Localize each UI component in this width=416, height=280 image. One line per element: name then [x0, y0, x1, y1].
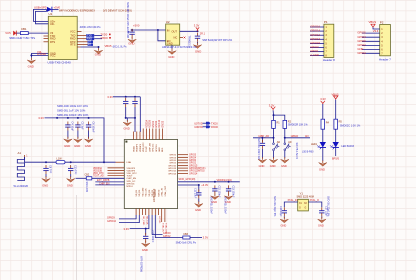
LED1 [320, 142, 326, 148]
junction rail drop [103, 161, 105, 163]
wire balun left [76, 177, 87, 179]
wire CHIP_EN [95, 184, 124, 186]
MCU U3 body [124, 140, 177, 209]
svg-text:GND: GND [64, 144, 70, 148]
svg-text:GND: GND [195, 49, 201, 53]
svg-text:XPD_DC: XPD_DC [153, 143, 155, 152]
svg-text:GND: GND [195, 208, 201, 212]
wire R2 down [284, 128, 286, 137]
wire C8 down [134, 107, 136, 118]
wire GPIO9 left [119, 215, 136, 219]
U3 left pin names inside [127, 161, 138, 188]
svg-text:U2: U2 [166, 20, 170, 24]
svg-text:3.3V: 3.3V [124, 227, 130, 231]
svg-text:GND: GND [259, 164, 265, 168]
wire URXD port [203, 126, 206, 128]
connector P1 [324, 24, 334, 57]
port arrow TXD0 [206, 122, 210, 125]
wire split [272, 110, 274, 120]
U1 right pin names [70, 30, 76, 47]
capacitor C1 polarized [129, 29, 134, 38]
ground GND15 [224, 194, 232, 200]
ground GND20 [280, 217, 288, 223]
svg-text:3.3V: 3.3V [320, 97, 326, 101]
svg-text:3.3V: 3.3V [38, 116, 44, 120]
svg-text:GPIO2: GPIO2 [169, 163, 176, 165]
wire 3.3V rail [45, 118, 105, 162]
svg-text:WIFI NODEMCU ESP8266EX: WIFI NODEMCU ESP8266EX [59, 9, 95, 13]
svg-text:RXD0: RXD0 [101, 36, 109, 40]
svg-text:LED1: LED1 [311, 143, 318, 146]
power flag VBUS [371, 24, 375, 27]
wire C17 gnd [321, 216, 323, 217]
svg-text:NC: NC [174, 36, 178, 40]
ground GND10 [142, 241, 150, 247]
svg-text:GND: GND [168, 55, 174, 59]
regulator U2 [166, 24, 180, 45]
svg-text:GPIO4: GPIO4 [189, 157, 197, 159]
svg-text:GPIO12: GPIO12 [310, 33, 320, 37]
junction [197, 30, 199, 32]
svg-text:SDIO_GPIO(MI): SDIO_GPIO(MI) [179, 179, 196, 181]
capacitor C9 [43, 165, 48, 174]
wire U1 pin to GND2 [81, 47, 99, 48]
power flag LED2 [334, 96, 338, 100]
svg-text:GPIO14: GPIO14 [189, 173, 198, 175]
svg-text:SD_CMD: SD_CMD [142, 216, 144, 226]
U3 top pin names inside [132, 142, 164, 152]
ground GND8 [84, 137, 92, 143]
svg-text:SD_D2: SD_D2 [136, 189, 138, 197]
svg-text:GPIO4: GPIO4 [169, 157, 176, 159]
junction [131, 29, 133, 31]
wire U1 pin UD+ to left [34, 9, 49, 21]
svg-text:GPIO5: GPIO5 [189, 155, 197, 157]
wire XTAL_OUT [308, 202, 321, 207]
P1 net labels [310, 25, 320, 57]
svg-text:L50 B-R60: L50 B-R60 [302, 150, 314, 153]
U1 right pin stubs [77, 32, 87, 45]
wire C5 to gnd [77, 131, 79, 138]
resistor R3 inline [183, 236, 190, 239]
svg-text:BP5/S: BP5/S [332, 157, 339, 160]
svg-text:C10 TPF: C10 TPF [73, 165, 76, 175]
wire LED1 top [322, 104, 324, 119]
RF pin stub [116, 161, 125, 163]
svg-text:TOUT: TOUT [146, 146, 148, 152]
wire output rail [180, 30, 198, 32]
svg-text:3.3V: 3.3V [269, 103, 275, 107]
svg-text:GND: GND [270, 164, 276, 168]
svg-text:U1: U1 [49, 12, 53, 16]
svg-text:GPIO3: GPIO3 [310, 45, 319, 49]
svg-text:SMD-5x6 CRL Ps: SMD-5x6 CRL Ps [176, 241, 197, 245]
junction [134, 96, 136, 98]
svg-text:SMD-03L 100nF: SMD-03L 100nF [223, 197, 226, 215]
wire C14 gnd [261, 149, 263, 158]
wire R5 to LED2 [335, 129, 337, 142]
svg-text:GND: GND [28, 64, 34, 68]
ground GND16 [258, 157, 266, 163]
wire EXT_RSTB [95, 181, 124, 183]
svg-text:XTAL_IN: XTAL_IN [161, 223, 164, 232]
ground GND2 [94, 48, 102, 54]
LED2 [333, 142, 339, 148]
junction [88, 117, 90, 119]
power flag LED1 [321, 101, 325, 105]
junction [77, 117, 79, 119]
crystal Y1 [298, 199, 309, 211]
svg-text:L1W: L1W [57, 157, 63, 160]
svg-text:GPIO0: GPIO0 [169, 160, 176, 162]
svg-text:SMD-0R5: SMD-0R5 [85, 182, 88, 193]
svg-text:AMS1117-3.3 SOT223-3.3V: AMS1117-3.3 SOT223-3.3V [162, 45, 197, 49]
svg-text:GPIO16: GPIO16 [156, 144, 158, 152]
svg-text:C16 22pF: C16 22pF [279, 206, 282, 217]
capacitor C4 [65, 122, 70, 131]
capacitor C13 [226, 185, 231, 194]
svg-text:3.3V: 3.3V [203, 236, 209, 240]
U3 top pin net labels vertical [145, 119, 164, 128]
capacitor C8 [132, 98, 137, 107]
svg-text:GND: GND [85, 144, 91, 148]
ground GND21 [318, 217, 326, 223]
U3 bottom pin stubs [136, 209, 165, 223]
U3 top pin stubs [134, 129, 163, 140]
svg-text:LED B-R03: LED B-R03 [341, 145, 354, 148]
svg-text:RTS: RTS [50, 40, 55, 44]
svg-text:RXD: RXD [87, 38, 92, 41]
U1 left pin names [50, 19, 56, 57]
svg-text:SMD-CHR T-BC TPs: SMD-CHR T-BC TPs [9, 36, 36, 40]
IC U1 USB-UART [48, 16, 77, 59]
svg-text:OUT: OUT [172, 29, 178, 33]
U1 pin stub [77, 46, 80, 48]
svg-text:AD: AD [288, 141, 292, 144]
svg-text:VDD33(2/3/4): VDD33(2/3/4) [217, 179, 232, 182]
net flag VBUS left [13, 31, 16, 36]
U1 left pin stubs [44, 36, 49, 42]
svg-text:GND: GND [357, 47, 363, 51]
svg-text:VDDA: VDDA [132, 146, 135, 152]
wire GPIO10 left [119, 215, 139, 223]
svg-text:W-H 2R4GB: W-H 2R4GB [14, 184, 29, 188]
junction [70, 161, 72, 163]
svg-text:XTAL_O: XTAL_O [310, 199, 319, 202]
U3 left pin stubs [108, 168, 125, 176]
junction [228, 181, 230, 183]
wire R1 down [273, 128, 275, 137]
svg-text:GND: GND [95, 53, 101, 57]
wire key1 net [253, 137, 274, 139]
U3 bottom pin net labels vertical [142, 216, 167, 235]
svg-text:SMD-03L 22pF 5%: SMD-03L 22pF 5% [327, 196, 330, 217]
svg-text:C6 100nF: C6 100nF [91, 122, 94, 133]
wire to R2 [274, 115, 285, 120]
wire RF line 2 [65, 161, 116, 163]
svg-text:SMD 3225 40M: SMD 3225 40M [297, 196, 314, 199]
svg-text:GND: GND [318, 224, 324, 228]
port mark TXD0 [109, 34, 111, 36]
wire RXD0 [94, 38, 102, 40]
svg-text:VCC: VCC [70, 30, 76, 34]
resistor R2 [283, 120, 287, 128]
ground GND6 [64, 137, 72, 143]
svg-text:GPIO12: GPIO12 [168, 171, 177, 173]
wire VBUS to P2 [373, 27, 380, 29]
wire VBUS to R [16, 32, 20, 34]
wire U1 VCC pin [31, 55, 48, 57]
wire C4 to gnd [67, 131, 69, 138]
svg-text:GND: GND [74, 144, 80, 148]
wire R to U1 [28, 32, 48, 34]
junction [134, 117, 136, 119]
svg-text:XTAL_IN: XTAL_IN [161, 188, 164, 197]
capacitor C11 [198, 185, 200, 192]
svg-text:RTS: RTS [70, 43, 75, 47]
svg-text:A1: A1 [18, 151, 22, 155]
P2 pin numbers [381, 28, 383, 56]
capacitor C14 [261, 138, 263, 142]
capacitor C7 [123, 98, 128, 107]
svg-text:GND: GND [159, 147, 161, 152]
svg-text:GPIO5: GPIO5 [357, 31, 366, 35]
capacitor C16 [282, 207, 287, 216]
connector P2 [380, 25, 391, 56]
svg-text:SD_D0: SD_D0 [149, 189, 151, 197]
Y1 pin names [299, 203, 308, 210]
ground GND12 [67, 176, 75, 182]
svg-text:U0TXD: U0TXD [158, 216, 160, 224]
wire chip top rail [113, 96, 140, 98]
wire LED2 top [335, 100, 337, 120]
svg-text:C15 100nF: C15 100nF [151, 231, 154, 243]
port mark RXD0 [109, 37, 111, 39]
capacitor C12 [212, 185, 217, 194]
P2 net labels [357, 31, 366, 55]
svg-text:+5V0: +5V0 [133, 24, 140, 28]
wire VDD rail right [178, 181, 240, 183]
svg-text:P2: P2 [380, 20, 384, 24]
wire rail to pin1 [134, 118, 136, 132]
svg-text:GPIO2: GPIO2 [189, 163, 197, 165]
svg-text:TXD0: TXD0 [100, 32, 107, 36]
capacitor C10 [68, 165, 73, 174]
junction [273, 114, 275, 116]
svg-text:GPIO14: GPIO14 [168, 173, 177, 175]
capacitor C17 [319, 207, 324, 216]
svg-text:WIFI-ESP8266: WIFI-ESP8266 [140, 256, 143, 273]
svg-text:IN: IN [167, 29, 170, 33]
port box TXD [86, 34, 94, 37]
U3 left pin net labels [93, 167, 104, 178]
svg-text:GPIO2: GPIO2 [357, 43, 366, 47]
svg-text:3.3V: 3.3V [107, 95, 113, 99]
junction [273, 137, 275, 139]
ground GND19 [319, 160, 327, 166]
svg-text:SMD-04D 10CE 10V 10%: SMD-04D 10CE 10V 10% [57, 104, 89, 108]
wire LED1 gnd [322, 148, 324, 162]
capacitor C5 [75, 122, 80, 131]
port box RTS [88, 43, 93, 46]
svg-text:GND: GND [142, 248, 148, 252]
U3 right pin stubs [178, 155, 188, 174]
ground GND13 [195, 201, 203, 207]
resistor R5 [334, 119, 338, 129]
wire 3.3V short [178, 184, 199, 186]
resistor CB1 [20, 32, 28, 35]
diode D1 [47, 7, 52, 12]
svg-text:XTAL_IN: XTAL_IN [288, 199, 298, 202]
U3 bottom pin names inside [136, 185, 167, 196]
wire C7 down [125, 107, 127, 118]
svg-text:GND: GND [67, 184, 73, 188]
svg-text:(8C) 1.0L Ps: (8C) 1.0L Ps [113, 45, 128, 48]
switch S2 [284, 138, 286, 143]
capacitor C15 [145, 229, 147, 235]
svg-text:C11 10uF: C11 10uF [193, 188, 196, 199]
ground GND9 [126, 118, 128, 121]
U3 pin1 dot [125, 141, 127, 143]
wire 3.3V bottom rail [130, 215, 149, 229]
ground GND1 [27, 58, 35, 64]
port box RXD [86, 37, 94, 40]
junction [125, 117, 127, 119]
ground GND14 [211, 194, 219, 200]
junction [284, 137, 286, 139]
junction [157, 29, 159, 31]
svg-text:SD_CLK: SD_CLK [145, 216, 147, 225]
svg-text:CHIP_EN: CHIP_EN [149, 142, 151, 152]
svg-text:AN: AN [305, 135, 309, 138]
svg-text:GND: GND [281, 224, 287, 228]
svg-text:SMD-03L 100nF 16V: SMD-03L 100nF 16V [257, 138, 260, 161]
junction [45, 161, 47, 163]
svg-text:SD_CMD: SD_CMD [142, 187, 144, 196]
port box DTR [88, 41, 93, 44]
wire UTXD port [203, 122, 206, 124]
junction [98, 46, 100, 48]
svg-text:RES: RES [162, 147, 164, 152]
svg-text:CB2: CB2 [85, 174, 90, 177]
svg-text:GND: GND [128, 41, 134, 45]
svg-text:GPIO0: GPIO0 [189, 160, 197, 162]
svg-text:GPIO0: GPIO0 [357, 39, 366, 43]
wire input rail [131, 29, 166, 31]
U2 pin names [167, 29, 178, 46]
svg-text:VBU5: VBU5 [105, 44, 113, 48]
svg-text:S68 5A3(2W WT RPI 2%: S68 5A3(2W WT RPI 2% [202, 38, 233, 42]
svg-text:VU5: VU5 [5, 31, 11, 35]
svg-text:GPIO13: GPIO13 [310, 37, 320, 41]
svg-text:SD_CLK: SD_CLK [146, 188, 148, 197]
wire balun to chip [92, 177, 125, 179]
svg-text:2R.1: 2R.1 [200, 33, 206, 36]
svg-text:Header 8: Header 8 [323, 58, 335, 62]
svg-text:GPIO1: GPIO1 [310, 49, 319, 53]
svg-text:TOUT_AD: TOUT_AD [93, 175, 104, 178]
svg-text:TXD0: TXD0 [211, 121, 218, 125]
svg-text:CB3: CB3 [183, 233, 188, 236]
svg-text:UD-: UD- [50, 22, 55, 26]
wire GPIO2 strap to R [155, 215, 183, 238]
svg-text:GND: GND [42, 184, 48, 188]
wire TXD0 [94, 35, 102, 37]
svg-text:VCC: VCC [50, 54, 56, 58]
ground GND3 [128, 37, 136, 43]
power flag 3.3V [271, 107, 275, 111]
wire C16 gnd [283, 216, 285, 217]
svg-text:12BLD: 12BLD [291, 135, 299, 138]
svg-text:C4 10uF: C4 10uF [71, 122, 74, 132]
svg-text:XTAL_OUT: XTAL_OUT [164, 185, 167, 196]
wire diode cathode [52, 8, 59, 10]
wire XTAL_IN [284, 202, 297, 207]
svg-text:3.3V: 3.3V [194, 24, 200, 28]
antenna A1 [17, 158, 24, 181]
svg-text:GND: GND [124, 126, 130, 130]
svg-text:SMD-05L 1uF 10V 10%: SMD-05L 1uF 10V 10% [57, 109, 86, 113]
svg-text:C5 1uF: C5 1uF [81, 122, 84, 131]
svg-text:SMD02R 10K 1%: SMD02R 10K 1% [288, 124, 308, 127]
wire key2 net [285, 137, 310, 139]
svg-text:VDD_RTC: VDD_RTC [143, 142, 145, 152]
svg-text:SMD-03L 100nF 16V 10%: SMD-03L 100nF 16V 10% [57, 113, 89, 117]
svg-text:GPIO14: GPIO14 [310, 29, 320, 33]
svg-text:LNA: LNA [127, 161, 132, 164]
P2 pin wires [362, 33, 380, 53]
svg-text:GPIO2: GPIO2 [163, 235, 171, 238]
A1 pin stub [24, 155, 26, 158]
wire S1 gnd [273, 151, 275, 158]
svg-text:GND: GND [281, 164, 287, 168]
svg-text:VDD3P3: VDD3P3 [137, 143, 139, 152]
junction [198, 184, 200, 186]
svg-text:VDD33A: VDD33A [93, 167, 102, 170]
svg-text:SW-PB 4.5x4.5: SW-PB 4.5x4.5 [295, 143, 298, 160]
ground GND18 [281, 157, 289, 163]
wire cap bottom rail [126, 117, 135, 119]
wire C9 gnd [45, 174, 47, 177]
svg-text:GPIO12(MTDI): GPIO12(MTDI) [189, 171, 205, 173]
svg-text:G: G [305, 208, 307, 210]
NC cross [184, 37, 186, 39]
wire C6 to gnd [88, 131, 90, 138]
svg-text:AD: AD [277, 141, 281, 144]
wire R4 to LED1 [322, 129, 324, 142]
junction [261, 137, 263, 139]
wire GPIO0 strap [152, 215, 162, 234]
svg-text:Header 7: Header 7 [379, 58, 391, 62]
svg-text:VBUS: VBUS [369, 20, 377, 24]
junction [56, 117, 58, 119]
wire C10 gnd [70, 174, 72, 177]
resistor R4 [321, 119, 325, 129]
ground GND4 [193, 43, 201, 49]
svg-text:+3.3V: +3.3V [201, 183, 208, 187]
wire C11 gnd [198, 198, 200, 202]
wire R3 to 3.3V [190, 237, 202, 239]
wire U1 GND pin [31, 54, 48, 56]
balun CB2 [86, 177, 92, 180]
svg-text:SMD-03L 100nF: SMD-03L 100nF [210, 197, 213, 215]
svg-text:CHIP_EN: CHIP_EN [99, 182, 110, 185]
resistor R1 [272, 120, 276, 128]
inductor L1 [56, 161, 65, 164]
U3 right pin net labels [189, 155, 206, 176]
wire EN [158, 30, 166, 41]
wire RF line [25, 157, 57, 162]
